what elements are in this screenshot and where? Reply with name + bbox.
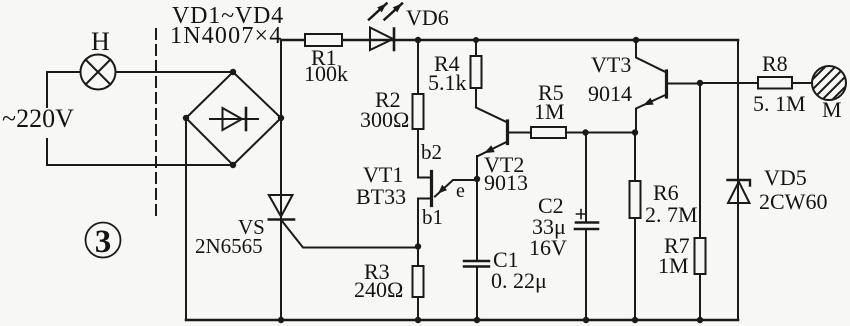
svg-text:9014: 9014 — [588, 81, 632, 106]
wire AC bottom to bridge bottom vertex — [47, 164, 233, 166]
resistor R8 — [758, 77, 812, 89]
svg-text:BT33: BT33 — [356, 184, 406, 209]
resistor R5 — [531, 127, 636, 138]
svg-text:2CW60: 2CW60 — [759, 189, 827, 214]
wire R2 branch drop — [417, 40, 419, 94]
svg-text:b2: b2 — [421, 140, 442, 164]
svg-text:0. 22μ: 0. 22μ — [491, 268, 547, 293]
svg-text:VD6: VD6 — [406, 5, 449, 30]
wire AC top from source to lamp — [47, 71, 81, 73]
wire bottom rail — [186, 319, 738, 322]
wire base node to R8 — [700, 82, 758, 84]
wire b1 to R3 — [418, 199, 430, 267]
wire AC source terminal upper stub — [46, 72, 48, 107]
thyristor VS symbol — [269, 195, 418, 248]
resistor R1 — [305, 34, 342, 46]
svg-text:5. 1M: 5. 1M — [753, 91, 806, 116]
svg-text:~220V: ~220V — [2, 104, 74, 133]
svg-text:VT3: VT3 — [591, 52, 631, 77]
svg-text:1M: 1M — [658, 253, 689, 278]
wire bridge right vertex down to VS — [280, 118, 282, 320]
svg-text:3: 3 — [95, 224, 112, 260]
transistor VT3 — [636, 40, 700, 133]
svg-text:2N6565: 2N6565 — [195, 234, 263, 258]
wire top rail — [281, 39, 738, 42]
zener diode VD5 — [728, 180, 751, 203]
svg-text:16V: 16V — [529, 235, 567, 260]
svg-text:VD5: VD5 — [764, 165, 807, 190]
svg-text:2. 7M: 2. 7M — [645, 202, 698, 227]
svg-text:9013: 9013 — [484, 170, 528, 195]
wire bridge right vertex up to top rail — [280, 40, 282, 118]
wire VT2 emitter node column through C1 — [476, 156, 478, 261]
resistor R4 — [471, 40, 482, 108]
LED VD6 — [369, 4, 402, 51]
wire bridge left vertex down to bottom rail — [185, 118, 187, 320]
svg-text:300Ω: 300Ω — [360, 107, 409, 132]
transistor VT1 UJT bar — [430, 172, 433, 206]
transistor VT1 emitter — [435, 180, 477, 197]
lamp H — [81, 55, 116, 90]
resistor R2 — [413, 94, 424, 129]
transistor VT2 — [476, 108, 531, 157]
resistor R6 branch — [630, 133, 641, 321]
svg-text:H: H — [91, 27, 110, 56]
svg-text:1N4007×4: 1N4007×4 — [170, 23, 282, 49]
svg-text:b1: b1 — [422, 205, 443, 229]
wire right rail down through VD5 — [737, 40, 739, 320]
wire R2 to b2 — [418, 129, 430, 178]
capacitor C1 — [464, 261, 489, 320]
motor M hatched circle — [800, 52, 850, 118]
dashed separation line — [155, 29, 157, 215]
bridge diode symbol — [210, 108, 258, 130]
svg-text:e: e — [456, 180, 465, 202]
svg-text:R8: R8 — [762, 51, 788, 76]
bridge rectifier VD1~VD4 diamond — [186, 72, 281, 165]
wire R3 to bottom rail — [417, 297, 419, 320]
wire AC source terminal lower stub — [46, 139, 48, 165]
resistor R3 — [413, 266, 424, 297]
svg-text:M: M — [822, 97, 842, 122]
svg-text:240Ω: 240Ω — [354, 277, 403, 302]
svg-text:1M: 1M — [534, 99, 565, 124]
svg-text:100k: 100k — [304, 61, 348, 86]
svg-text:5.1k: 5.1k — [428, 70, 467, 95]
wire lamp to bridge top vertex — [116, 71, 234, 73]
capacitor C2 branch — [575, 133, 598, 321]
circled figure number 3 — [86, 223, 121, 261]
resistor R7 branch — [695, 83, 706, 320]
